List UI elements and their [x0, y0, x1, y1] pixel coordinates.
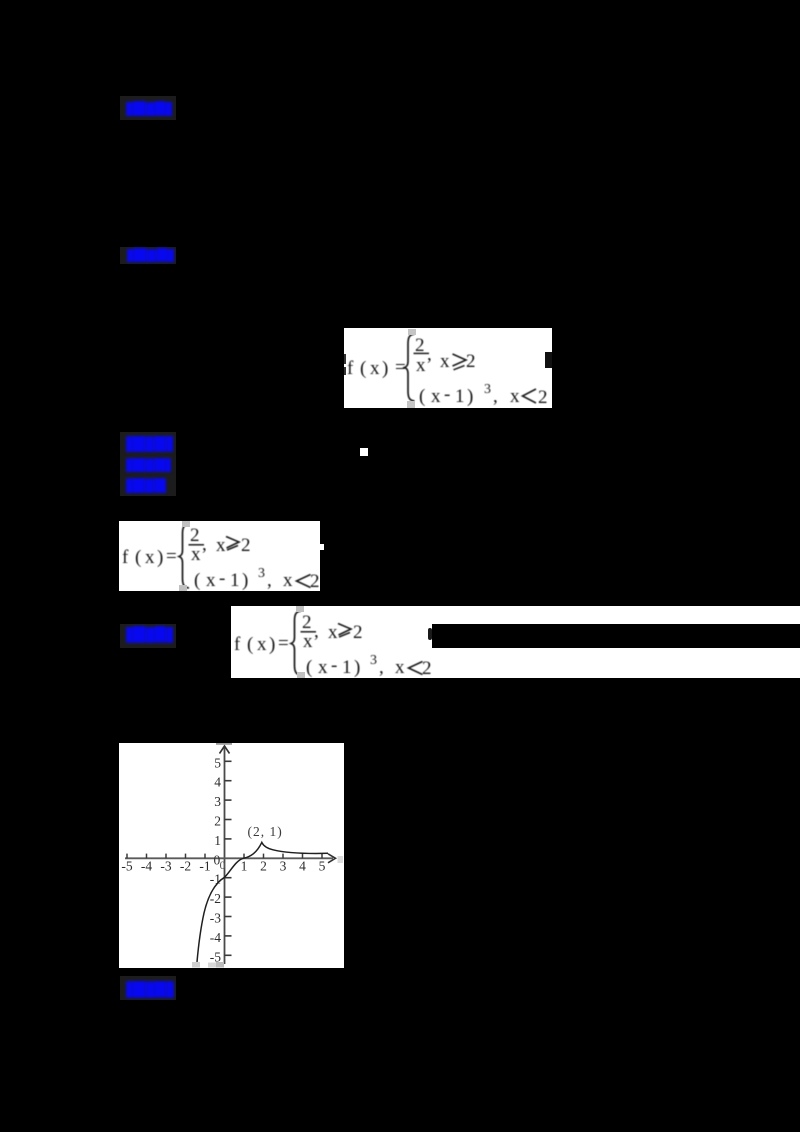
shared defs: piecewise formula template	[0, 0, 1, 1]
svg-text:1: 1	[241, 859, 248, 874]
formula 1 left-edge glyph fragment	[344, 354, 346, 364]
formula 2 right-edge white nub	[320, 544, 324, 550]
svg-text:2: 2	[214, 814, 221, 829]
svg-text:-3: -3	[160, 859, 171, 874]
blue label 4	[120, 624, 176, 648]
x-axis	[125, 857, 333, 859]
formula 2 gray nub bottom	[179, 585, 187, 591]
small white square	[360, 448, 368, 456]
formula 1 gray nub bottom	[407, 401, 415, 408]
formula 3 black bar	[432, 624, 800, 648]
svg-text:5: 5	[214, 755, 221, 770]
curve	[197, 842, 328, 962]
svg-text:-3: -3	[210, 911, 221, 926]
svg-text:-1: -1	[210, 872, 221, 887]
x tick labels	[121, 859, 325, 874]
blue label group (3 rows)	[120, 432, 176, 496]
formula 3 bar-left glyph nub	[428, 628, 432, 640]
gray artifacts bottom	[192, 962, 200, 968]
formula box 3 (full width)	[231, 606, 800, 678]
y-axis	[224, 747, 226, 964]
svg-text:(2, 1): (2, 1)	[248, 824, 283, 839]
svg-text:-4: -4	[210, 930, 221, 945]
svg-text:5: 5	[319, 859, 326, 874]
formula 3 gray nub bottom	[297, 672, 305, 678]
svg-text:3: 3	[280, 859, 287, 874]
formula box 2	[119, 521, 320, 591]
graph box	[119, 743, 344, 968]
svg-text:3: 3	[214, 794, 221, 809]
svg-text:-5: -5	[121, 859, 132, 874]
svg-text:2: 2	[260, 859, 267, 874]
blue label 5	[120, 976, 176, 1000]
formula box 1	[344, 328, 552, 408]
svg-text:0: 0	[220, 858, 226, 872]
svg-text:1: 1	[214, 833, 221, 848]
formula 1 right-edge glyph	[545, 352, 552, 368]
svg-text:-2: -2	[180, 859, 191, 874]
formula 2 gray nub top	[182, 521, 190, 527]
formula 1 gray nub top	[408, 329, 416, 335]
svg-text:4: 4	[299, 859, 306, 874]
svg-text:4: 4	[214, 775, 221, 790]
gray smudge top	[216, 743, 232, 745]
formula 3 gray nub top	[296, 606, 304, 612]
y-axis arrowhead	[220, 746, 230, 754]
y tick labels	[210, 755, 222, 964]
y ticks	[225, 761, 232, 955]
blue label 1	[120, 96, 176, 120]
gray patch near x-arrow	[338, 856, 344, 863]
svg-text:-4: -4	[141, 859, 152, 874]
blue label 2	[120, 247, 176, 264]
x ticks	[127, 854, 322, 859]
x-axis arrowhead	[328, 854, 336, 863]
